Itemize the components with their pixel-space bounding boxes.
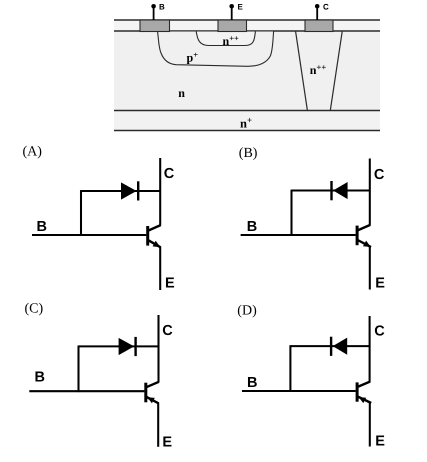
- svg-text:E: E: [162, 435, 172, 451]
- node E label B: [375, 276, 385, 292]
- svg-text:C: C: [323, 2, 329, 11]
- svg-text:(A): (A): [23, 144, 43, 159]
- wire diode branch vertical D: [289, 345, 291, 392]
- wire emitter vertical A: [159, 247, 161, 290]
- contact pad E: [218, 20, 247, 32]
- node E label D: [375, 433, 385, 449]
- svg-text:B: B: [37, 219, 47, 235]
- diode D2 collector-to-base (B): [332, 181, 348, 200]
- wire diode branch vertical B: [290, 190, 292, 236]
- n++ emitter diffusion pocket: [196, 32, 255, 46]
- node E label C: [162, 435, 172, 451]
- node C label A: [164, 166, 175, 182]
- wire emitter vertical C: [157, 403, 159, 447]
- label n+ buried layer: [240, 115, 252, 130]
- wire diode branch horizontal C: [79, 345, 159, 347]
- label (C): [25, 302, 44, 317]
- wire diode branch horizontal D: [290, 345, 369, 347]
- oxide top layer: [114, 20, 380, 31]
- node C label D: [374, 324, 385, 340]
- svg-text:B: B: [247, 219, 257, 235]
- wire base horizontal D: [242, 390, 356, 392]
- svg-text:B: B: [35, 370, 45, 386]
- svg-text:B: B: [159, 2, 165, 11]
- svg-text:C: C: [162, 323, 173, 339]
- svg-text:(B): (B): [239, 146, 258, 161]
- transistor Q1 npn (A): [148, 225, 161, 247]
- transistor Q3 pnp-style arrow (C): [146, 382, 159, 404]
- wire base horizontal A: [32, 234, 146, 236]
- node C label C: [162, 323, 173, 339]
- diode D4 collector-to-base (D): [331, 337, 347, 356]
- transistor Q4 pnp-style arrow (D): [357, 382, 371, 404]
- label (B): [239, 146, 258, 161]
- svg-text:C: C: [374, 167, 385, 183]
- wire diode branch vertical A: [80, 190, 82, 236]
- node C label B: [374, 167, 385, 183]
- n+ buried substrate layer: [114, 111, 380, 131]
- p+ base diffusion region: [158, 32, 274, 67]
- wire diode branch horizontal A: [81, 190, 160, 192]
- contact pad B: [140, 20, 170, 32]
- wire base horizontal C: [29, 390, 144, 392]
- diode D1 anode-to-collector (A): [121, 181, 138, 200]
- svg-text:C: C: [164, 166, 175, 182]
- wire diode branch vertical C: [77, 346, 79, 393]
- svg-text:E: E: [375, 433, 385, 449]
- terminal E lead: [229, 2, 243, 20]
- wire emitter vertical D: [369, 403, 371, 447]
- svg-text:(C): (C): [25, 302, 44, 317]
- deep n++ collector sinker: [296, 32, 343, 111]
- wire collector vertical C: [157, 315, 159, 382]
- wire base horizontal B: [241, 234, 356, 236]
- transistor Q2 npn (B): [357, 225, 371, 247]
- label p+ base: [187, 49, 199, 64]
- svg-text:(D): (D): [237, 304, 257, 319]
- node E label A: [165, 276, 175, 292]
- label n++ emitter: [223, 33, 240, 48]
- node B label D: [247, 375, 257, 391]
- svg-text:C: C: [374, 324, 385, 340]
- node B label A: [37, 219, 47, 235]
- wire emitter vertical B: [369, 246, 371, 289]
- wire collector vertical D: [369, 316, 371, 382]
- wire collector vertical B: [369, 159, 371, 226]
- node B label C: [35, 370, 45, 386]
- diode D3 anode-to-collector (C): [119, 337, 136, 356]
- wire collector vertical A: [159, 158, 161, 226]
- svg-text:B: B: [247, 375, 257, 391]
- wire diode branch horizontal B: [292, 189, 370, 191]
- terminal C lead: [315, 2, 329, 20]
- label (D): [237, 304, 257, 319]
- svg-text:n: n: [178, 86, 185, 100]
- terminal B lead: [151, 2, 165, 20]
- label (A): [23, 144, 43, 159]
- node B label B: [247, 219, 257, 235]
- svg-text:E: E: [165, 276, 175, 292]
- label n++ sinker: [310, 62, 327, 77]
- n epitaxial body region: [114, 31, 380, 111]
- svg-text:E: E: [238, 2, 244, 11]
- contact pad C: [305, 20, 333, 32]
- svg-text:E: E: [375, 276, 385, 292]
- label n body: [178, 86, 185, 100]
